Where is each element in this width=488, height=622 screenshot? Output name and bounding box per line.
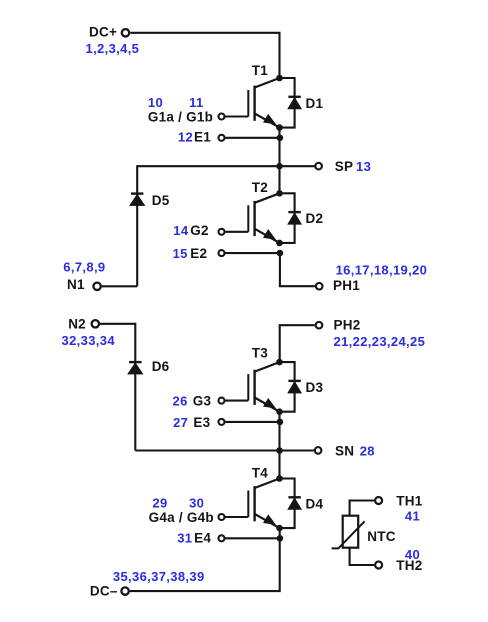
- svg-text:41: 41: [405, 509, 420, 524]
- terminal TH1: [375, 497, 382, 504]
- wire NTC to TH2: [350, 548, 375, 565]
- wire emitter pin E4: [225, 537, 280, 539]
- thermistor NTC: [332, 516, 365, 549]
- svg-text:G2: G2: [190, 223, 209, 238]
- junction collector T3: [276, 359, 283, 366]
- svg-text:T4: T4: [252, 465, 268, 480]
- wire T3 emitter to T4 collector: [278, 412, 280, 479]
- svg-text:SN: SN: [335, 443, 354, 458]
- transistor T2: [248, 193, 279, 243]
- wire SP rail: [137, 165, 314, 167]
- terminal N2: [92, 320, 99, 327]
- wire T4 emitter to DC-: [130, 528, 280, 591]
- svg-text:31: 31: [177, 530, 192, 545]
- svg-text:11: 11: [189, 95, 203, 110]
- terminal gate G4: [219, 514, 225, 520]
- junction emitter T2: [276, 240, 283, 247]
- terminal N1: [93, 283, 100, 290]
- svg-text:TH1: TH1: [396, 493, 422, 508]
- svg-text:N1: N1: [67, 277, 85, 292]
- svg-text:D4: D4: [306, 496, 324, 511]
- svg-text:12: 12: [178, 130, 193, 145]
- svg-text:D6: D6: [152, 359, 170, 374]
- wire D6 branch: [134, 323, 136, 451]
- svg-text:PH2: PH2: [334, 318, 361, 333]
- diode D1: [280, 78, 302, 128]
- wire T2 emitter to PH1: [280, 253, 315, 286]
- transistor T1: [248, 78, 279, 128]
- terminal SN: [315, 447, 322, 454]
- svg-text:29: 29: [152, 496, 167, 511]
- terminal PH1: [316, 283, 323, 290]
- svg-text:G1a / G1b: G1a / G1b: [148, 110, 213, 125]
- svg-text:N2: N2: [68, 317, 86, 332]
- wire T1 emitter to T2 collector: [278, 128, 280, 194]
- svg-text:E4: E4: [194, 530, 211, 545]
- terminal DC-: [121, 587, 128, 594]
- svg-text:E2: E2: [190, 246, 207, 261]
- svg-text:TH2: TH2: [396, 558, 422, 573]
- terminal gate G3: [219, 398, 225, 404]
- diode D4: [280, 479, 302, 529]
- terminal emitter E1: [219, 135, 225, 141]
- junction collector T1: [276, 75, 283, 82]
- junction E4: [277, 535, 284, 542]
- svg-text:PH1: PH1: [333, 278, 360, 293]
- svg-text:13: 13: [356, 159, 371, 174]
- terminal gate G1: [219, 114, 225, 120]
- svg-text:D3: D3: [306, 380, 324, 395]
- wire gate lead T2: [225, 231, 248, 233]
- svg-text:NTC: NTC: [367, 529, 396, 544]
- junction collector T2: [276, 190, 283, 197]
- svg-text:10: 10: [148, 95, 163, 110]
- junction SN: [276, 447, 283, 454]
- svg-text:E1: E1: [194, 130, 211, 145]
- wire N2 to D6 branch: [100, 323, 135, 325]
- svg-text:26: 26: [173, 394, 188, 409]
- transistor T4: [248, 479, 279, 529]
- svg-text:6,7,8,9: 6,7,8,9: [63, 259, 105, 274]
- terminal DC+: [122, 29, 129, 36]
- terminal SP: [315, 163, 322, 170]
- junction E1: [277, 135, 284, 142]
- terminal TH2: [375, 562, 382, 569]
- wire gate lead T1: [225, 115, 248, 117]
- junction emitter T3: [276, 408, 283, 415]
- terminal gate G2: [219, 229, 225, 235]
- wire SN rail: [135, 449, 314, 451]
- wire TH1 to NTC: [350, 501, 375, 516]
- wire emitter pin E1: [225, 137, 280, 139]
- svg-text:32,33,34: 32,33,34: [62, 333, 116, 348]
- wire emitter pin E3: [225, 421, 280, 423]
- svg-text:G3: G3: [193, 394, 212, 409]
- svg-text:E3: E3: [193, 415, 210, 430]
- wire D5 branch: [136, 165, 138, 286]
- svg-text:35,36,37,38,39: 35,36,37,38,39: [113, 569, 205, 584]
- svg-text:27: 27: [173, 415, 188, 430]
- svg-text:D2: D2: [306, 211, 324, 226]
- terminal emitter E3: [219, 419, 225, 425]
- svg-text:T3: T3: [252, 345, 268, 360]
- junction SP: [276, 163, 283, 170]
- svg-text:1,2,3,4,5: 1,2,3,4,5: [86, 41, 140, 56]
- junction E3: [277, 419, 284, 426]
- diode D6: [128, 362, 143, 374]
- svg-text:D5: D5: [152, 193, 170, 208]
- transistor T3: [248, 362, 279, 412]
- svg-text:16,17,18,19,20: 16,17,18,19,20: [336, 263, 428, 278]
- svg-text:21,22,23,24,25: 21,22,23,24,25: [334, 334, 426, 349]
- wire gate lead T4: [225, 516, 248, 518]
- svg-text:DC+: DC+: [89, 25, 117, 40]
- svg-text:15: 15: [173, 246, 188, 261]
- svg-text:T2: T2: [252, 180, 268, 195]
- svg-text:28: 28: [360, 443, 375, 458]
- diode D5: [130, 194, 145, 206]
- wire N1 to D5 branch: [102, 285, 138, 287]
- diode D2: [280, 193, 302, 243]
- svg-text:14: 14: [173, 223, 189, 238]
- wire PH2 to T3 collector: [280, 325, 315, 362]
- junction emitter T4: [276, 525, 283, 532]
- svg-text:D1: D1: [306, 96, 324, 111]
- terminal emitter E2: [219, 250, 225, 256]
- junction emitter T1: [276, 124, 283, 131]
- svg-text:G4a / G4b: G4a / G4b: [149, 510, 214, 525]
- svg-text:DC–: DC–: [90, 584, 118, 599]
- wire gate lead T3: [225, 400, 248, 402]
- svg-text:T1: T1: [252, 63, 268, 78]
- svg-text:30: 30: [189, 496, 204, 511]
- wire emitter pin E2: [225, 252, 280, 254]
- terminal emitter E4: [219, 535, 225, 541]
- terminal PH2: [316, 322, 323, 329]
- svg-text:SP: SP: [335, 159, 354, 174]
- diode D3: [280, 362, 302, 412]
- junction collector T4: [276, 475, 283, 482]
- wire DC+ to T1 collector: [130, 33, 279, 78]
- junction E2: [277, 250, 284, 257]
